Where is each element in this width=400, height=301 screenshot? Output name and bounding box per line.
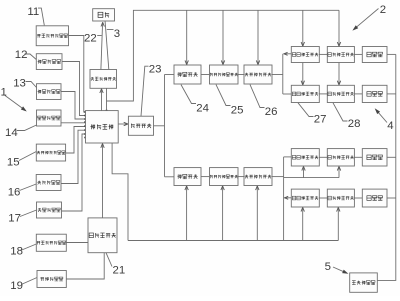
wire: outer handle to lock row4: [354, 197, 362, 199]
label 28 leader: [333, 103, 348, 121]
label 28: [348, 118, 361, 130]
label 2 arrow: [352, 9, 378, 31]
label 1 arrow: [5, 96, 27, 112]
metal proximity switch upper 金属接近开关: [244, 65, 272, 84]
main control host 控制主机: [86, 111, 119, 143]
label 27 leader: [298, 103, 314, 117]
electromagnetic lock row3 电磁锁: [362, 149, 387, 166]
label 12 leader: [25, 54, 37, 60]
label 4: [387, 120, 393, 132]
svg-text:28: 28: [348, 118, 361, 130]
inner door handle switch row3 门内把手开关: [291, 149, 319, 166]
label 27: [314, 114, 327, 126]
label 3 leader: [107, 29, 114, 31]
svg-text:16: 16: [8, 187, 21, 199]
metal proximity switch lower 金属接近开关: [244, 168, 272, 186]
label 19: [10, 280, 23, 292]
svg-text:18: 18: [10, 246, 23, 258]
label 15: [7, 157, 20, 169]
wire: sensor12 feeder: [62, 62, 86, 116]
svg-text:14: 14: [5, 127, 18, 139]
wire: under row3 rail: [284, 177, 339, 179]
wire: junction to inner handle row3: [284, 156, 292, 158]
outer door handle switch row2 门外把手开关: [327, 85, 354, 102]
wire: bus up to outer handle row4: [337, 207, 340, 240]
wire: C to junction: [272, 74, 283, 76]
sensor 19 压力传感器: [37, 271, 66, 288]
wire: B to C: [238, 74, 244, 76]
wire: rail up to inner handle row3: [302, 166, 305, 177]
wire: right bus: [377, 54, 396, 280]
label 5 arrow: [333, 267, 348, 274]
sensor 13 距离传感器: [37, 84, 62, 100]
wire: inner to outer handle row1: [319, 53, 327, 55]
electromagnetic lock row2 电磁锁: [362, 85, 387, 102]
wire: top rail drop to outer handle switch row1: [337, 10, 340, 46]
wire: bus up to A2: [185, 186, 188, 241]
sensor 12 地磁传感器: [36, 54, 62, 70]
label 23: [149, 63, 162, 75]
wire: inner handle row1 to row2: [301, 63, 304, 85]
electromagnetic lock row1 电磁锁: [362, 47, 387, 63]
wire: lock row3 to right bus: [387, 156, 396, 158]
outer door handle switch row3 门外把手开关: [327, 149, 354, 166]
label 18 leader: [21, 244, 37, 251]
wire: sensor18 to network master: [66, 242, 88, 244]
label 12: [15, 49, 28, 61]
label 22: [84, 33, 97, 45]
label 13: [13, 78, 26, 90]
wire: inner to outer handle row3: [319, 156, 327, 158]
outer door handle switch row4 门外把手开关: [327, 189, 354, 207]
wire: junction to inner handle row1 with arrow: [283, 52, 291, 55]
node: host input junctions: [84, 110, 107, 139]
label 14: [5, 127, 18, 139]
wire: C2 to lower junction: [272, 176, 284, 178]
svg-text:23: 23: [149, 63, 162, 75]
wire: A to B: [201, 74, 210, 76]
label 19 leader: [21, 278, 37, 285]
wire: lock row2 to right bus: [387, 93, 396, 95]
svg-text:27: 27: [314, 114, 327, 126]
svg-text:11: 11: [27, 6, 39, 18]
wire: host to safety switch arrow: [100, 89, 103, 111]
sound-light alarm 声光报警器: [350, 273, 378, 292]
label 26 leader: [250, 85, 265, 108]
label 4 arrow: [375, 108, 387, 122]
label 22 leader: [97, 35, 102, 37]
svg-text:19: 19: [10, 280, 23, 292]
wire: lock row4 to right bus: [387, 197, 396, 199]
svg-text:22: 22: [84, 33, 97, 45]
label 17 leader: [20, 210, 37, 217]
label 15 leader: [19, 152, 36, 161]
outer door handle switch row1 门外把手开关: [327, 47, 354, 63]
sensor 11 第一速度传感器: [36, 26, 68, 46]
wire: inner to outer handle row2: [319, 93, 327, 95]
wire: host to speed switch: [118, 122, 128, 125]
wire: safety to host plain: [106, 88, 108, 110]
wire: host bottom feed to bottom bus: [112, 143, 128, 241]
geomagnetic switch lower 地磁开关: [174, 168, 201, 186]
label 13 leader: [26, 82, 37, 88]
label 25: [231, 105, 244, 117]
label 16 leader: [20, 184, 37, 191]
electromagnetic lock row4 电磁锁: [362, 189, 387, 207]
wire: top rail drop to geomagnetic switch: [185, 10, 188, 64]
speed switch 速度开关: [128, 116, 153, 135]
svg-text:24: 24: [196, 103, 209, 115]
wire: speed switch to bus: [154, 125, 165, 127]
label 11 leader: [38, 8, 44, 25]
wire: junction to inner handle row4 with arrow: [284, 196, 291, 199]
power supply box 电源: [93, 9, 115, 21]
wire: sensor15 feeder: [66, 127, 86, 154]
label 16: [8, 187, 21, 199]
wire: sensor14 feeder: [61, 122, 86, 124]
svg-text:17: 17: [8, 213, 21, 225]
wire: bus up to C2: [256, 186, 259, 241]
wire: network master to host arrow: [101, 144, 104, 218]
wire: inner to outer handle row4: [319, 197, 327, 199]
wire: bus to geomagnetic switch: [165, 74, 175, 76]
wire: top rail drop to speed-distance switch: [221, 10, 224, 64]
inner door handle switch row1 门内把手开关: [291, 47, 319, 63]
wire: bus up to inner handle row4: [301, 207, 304, 240]
wire: outer handle row1 to row2: [337, 63, 340, 85]
svg-text:5: 5: [325, 261, 331, 273]
wire: safety switch to power supply right: [105, 21, 109, 69]
sensor 14 磁感传感器: [37, 110, 62, 126]
label 26: [265, 106, 278, 118]
wire: host area to top rail: [107, 10, 340, 101]
sensor 16 水浸传感器: [36, 175, 61, 191]
speed-distance switch lower 速度及距离开关: [210, 168, 239, 186]
speed-distance switch upper 速度及距离开关: [210, 65, 239, 84]
svg-text:1: 1: [1, 87, 7, 99]
inner door handle switch row2 门内把手开关: [291, 85, 319, 102]
wire: sensor13 feeder: [61, 92, 86, 120]
label 5: [325, 261, 331, 273]
svg-text:3: 3: [114, 28, 120, 40]
label 24 leader: [181, 85, 196, 104]
svg-text:2: 2: [380, 4, 386, 16]
label 3: [114, 28, 120, 40]
wire: A2 to B2: [201, 176, 210, 178]
inner door handle switch row4 门内把手开关: [291, 189, 319, 207]
label 17: [8, 213, 21, 225]
wire: bus to lower geomagnetic switch: [165, 176, 175, 178]
wire: sensor16 feeder: [61, 130, 86, 183]
wire: outer handle to lock row3: [354, 156, 362, 158]
label 14 leader: [17, 125, 37, 131]
wire: junction to inner handle row2: [283, 93, 292, 95]
svg-text:25: 25: [231, 105, 244, 117]
network master switch 网络主开关: [88, 218, 117, 253]
wire: lower junction vertical: [283, 157, 285, 241]
wire: sensor11 feeder: [69, 36, 87, 113]
wire: lock row1 to right bus: [387, 53, 396, 55]
label 21 leader: [106, 253, 112, 267]
svg-text:12: 12: [15, 49, 28, 61]
label 2: [380, 4, 386, 16]
wire: B2 to C2: [238, 176, 244, 178]
wire: sensor17 feeder: [62, 134, 87, 211]
wire: outer handle to lock row2: [354, 93, 362, 95]
wire: outer handle to lock row1: [354, 53, 362, 55]
safety protection switch 安全保护开关: [90, 70, 117, 89]
wire: rail up to outer handle row3: [337, 166, 340, 177]
label 18: [10, 246, 23, 258]
wire: safety switch to power supply left: [101, 22, 105, 69]
wire: junction vertical upper: [282, 54, 284, 94]
label 24: [196, 103, 209, 115]
wire: bus up to B2: [221, 186, 224, 241]
label 1: [1, 87, 7, 99]
geomagnetic switch upper 地磁开关: [174, 65, 201, 84]
wire: top rail drop to inner handle switch row1: [301, 10, 304, 46]
svg-text:4: 4: [387, 120, 393, 132]
sensor 15 金属接近传感器: [36, 144, 65, 161]
wire: sensor19 to network master: [66, 253, 104, 279]
svg-text:13: 13: [13, 78, 26, 90]
label 21: [113, 265, 126, 277]
wire: bottom bus: [128, 240, 338, 242]
sensor 18 第二速度传感器: [36, 234, 66, 251]
svg-text:21: 21: [113, 265, 126, 277]
label 25 leader: [216, 85, 231, 106]
label 23 leader: [141, 66, 149, 116]
sensor 17 火焰传感器: [37, 202, 62, 218]
wire: mid bus vertical: [164, 75, 166, 177]
svg-text:15: 15: [7, 157, 20, 169]
label 11: [27, 6, 39, 18]
svg-text:26: 26: [265, 106, 278, 118]
wire: top rail drop to metal proximity switch: [256, 10, 259, 64]
